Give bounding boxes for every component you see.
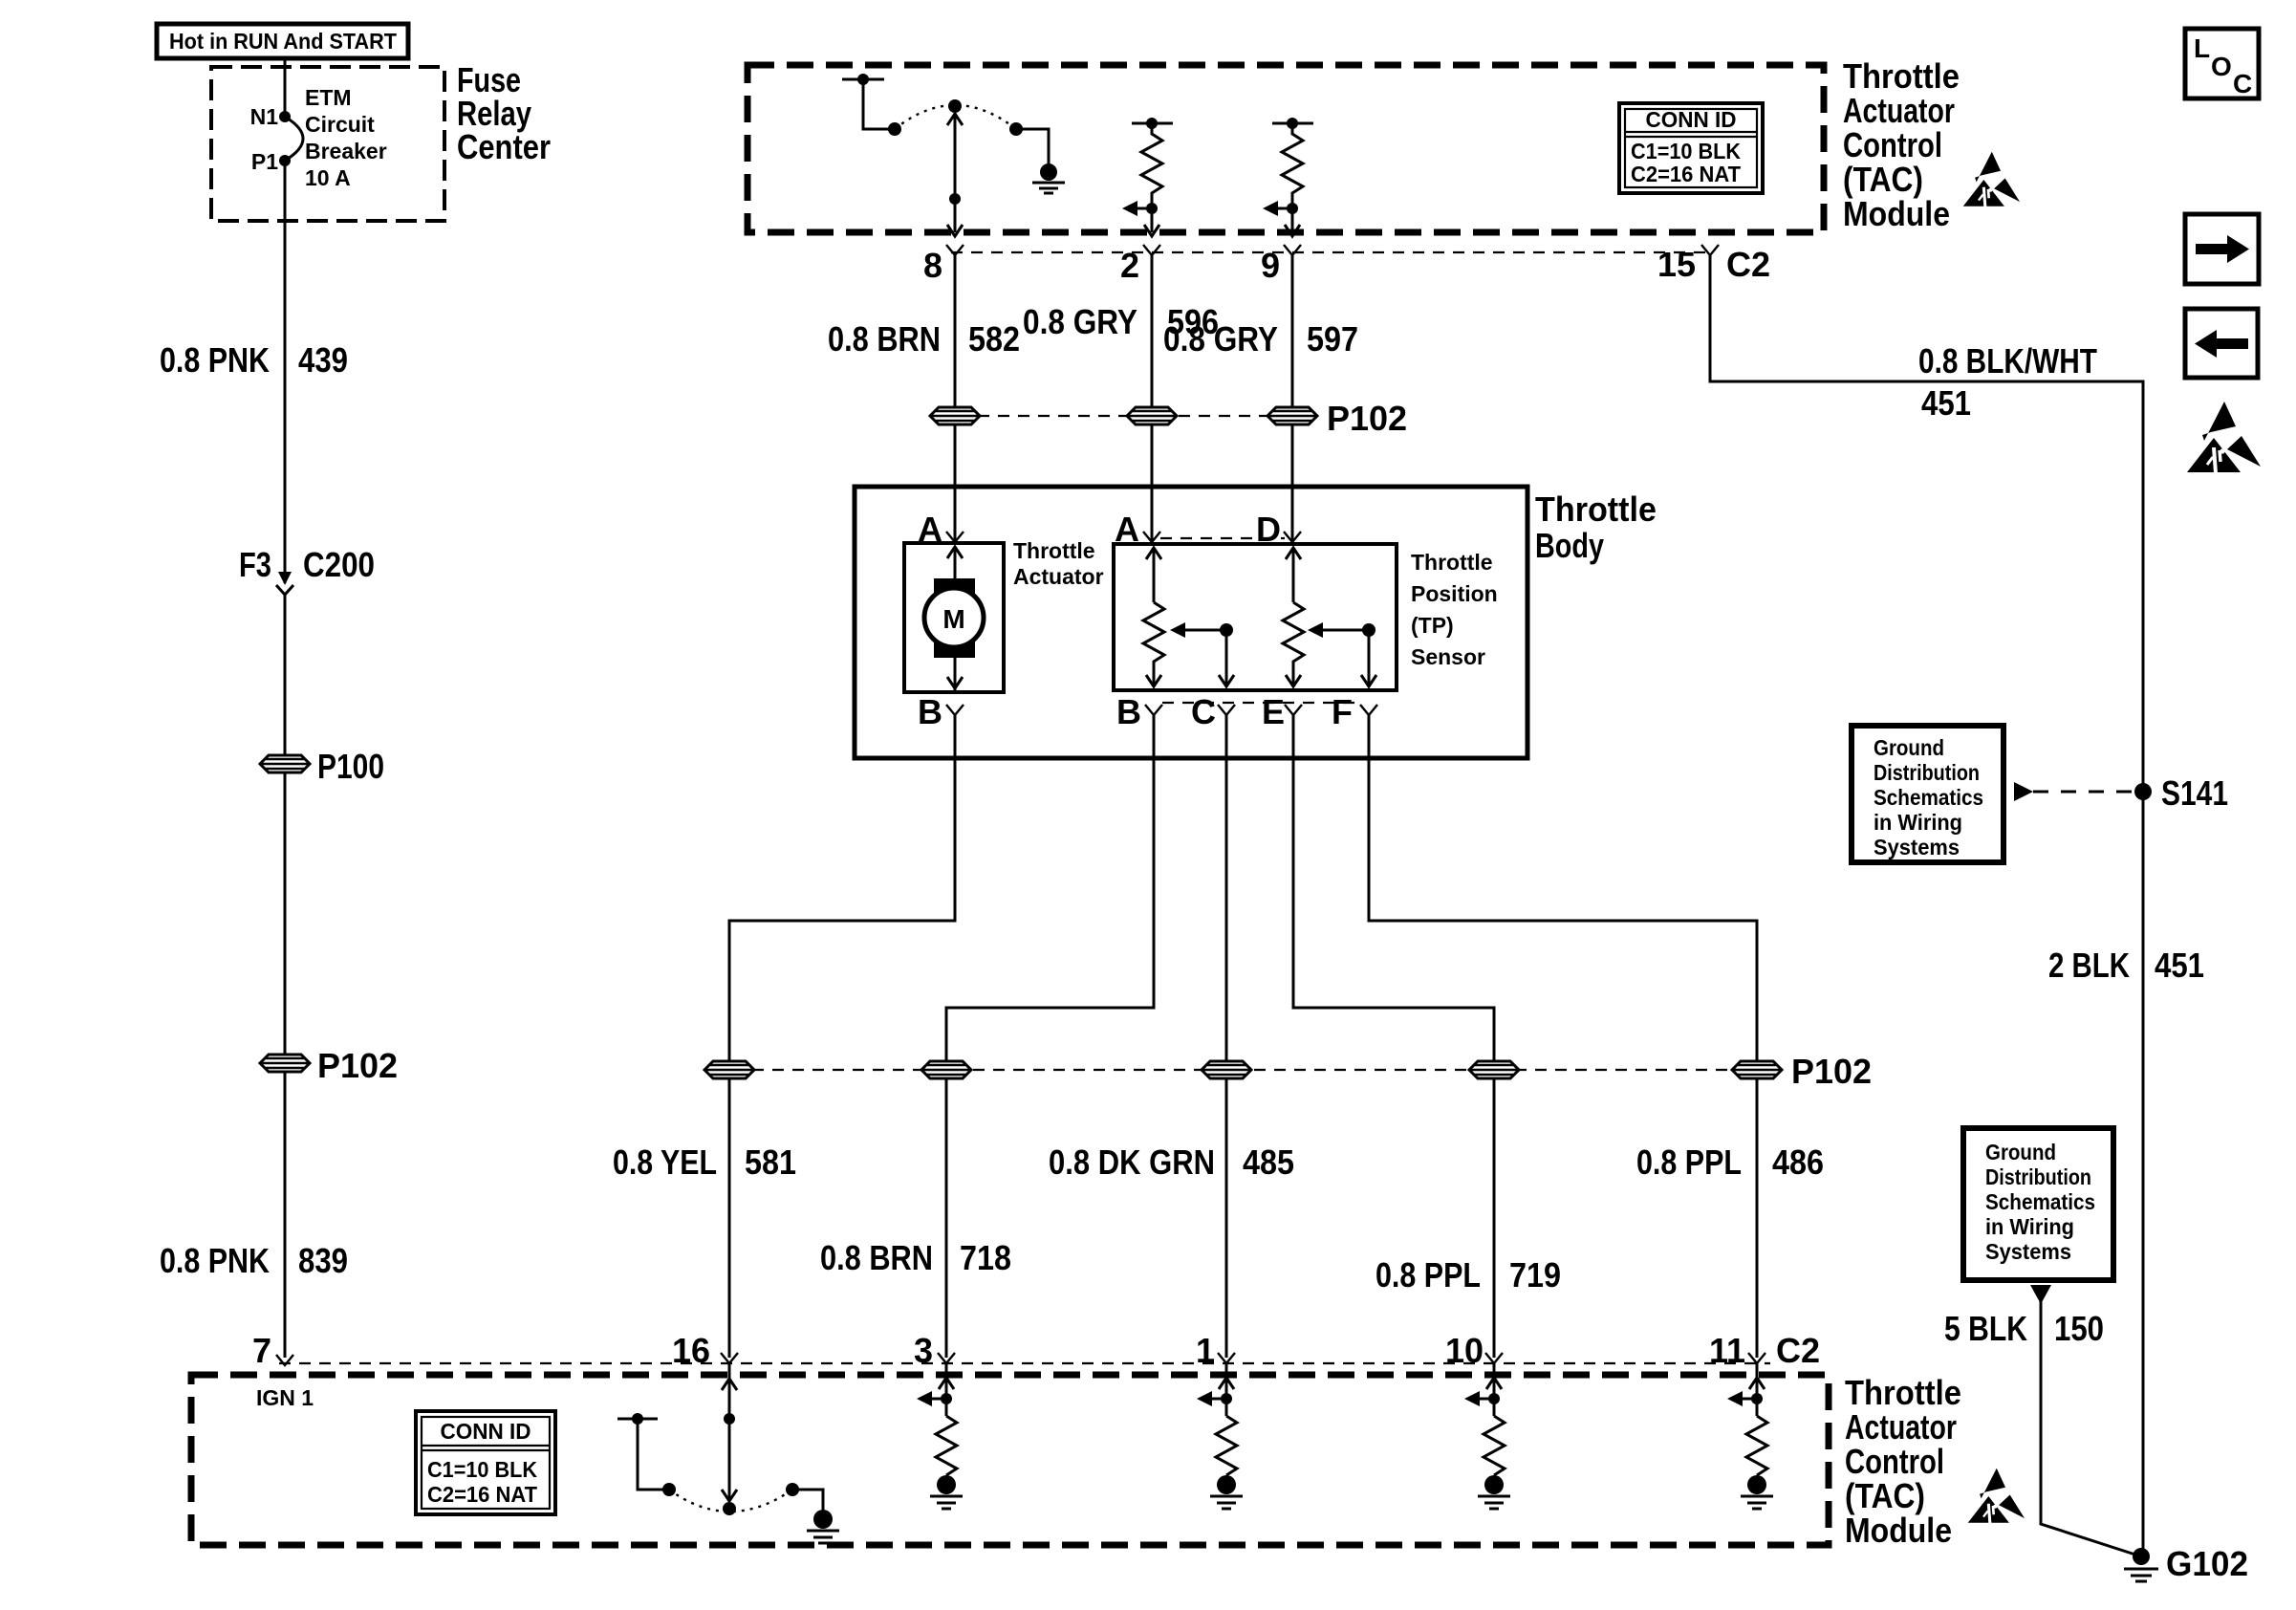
pin A chevron (TP) [1115, 510, 1160, 549]
wire 581 (motor B to pin 16, jog) [729, 715, 955, 1358]
grommet P102 a [930, 407, 980, 424]
wire 718 (TP B to pin 3, jog) [946, 715, 1154, 1358]
wire 451 (pin 15 C2 to G102) [1710, 255, 2143, 1556]
wire 597 (pin 9 to TP D) [1291, 255, 1294, 543]
relay switch in top TAC module [842, 74, 1049, 164]
svg-text:150: 150 [2054, 1309, 2104, 1348]
dashed link A to D [1160, 537, 1285, 539]
svg-text:F3: F3 [239, 545, 271, 584]
svg-text:C1=10 BLK: C1=10 BLK [427, 1457, 537, 1482]
label 0.8 BRN 582 [828, 319, 1020, 359]
svg-text:Throttle: Throttle [1845, 1373, 1961, 1412]
svg-text:IGN 1: IGN 1 [256, 1385, 314, 1410]
circuit breaker ETM 10A [250, 85, 387, 190]
svg-text:(TAC): (TAC) [1845, 1476, 1925, 1515]
pin F chevron [1332, 692, 1377, 731]
wire pin 16 (relay common, double arrow) [722, 1363, 737, 1501]
svg-text:Throttle: Throttle [1843, 56, 1960, 96]
svg-text:Actuator: Actuator [1845, 1407, 1957, 1447]
pin 9 chevron and label [1261, 245, 1301, 285]
wire from header into fuse box [284, 57, 287, 117]
svg-text:in Wiring: in Wiring [1985, 1214, 2074, 1239]
connector C200 (F3) [239, 545, 375, 595]
svg-text:E: E [1262, 692, 1285, 731]
svg-text:1: 1 [1196, 1331, 1215, 1370]
pin 15 chevron and labels 15 / C2 [1657, 245, 1770, 284]
TP wiper 1 (pin C) [1170, 622, 1234, 686]
svg-text:C2: C2 [1726, 245, 1770, 284]
pin 8 chevron and label [923, 245, 964, 285]
svg-text:0.8 YEL: 0.8 YEL [613, 1142, 717, 1182]
wire 582 (pin 8 to motor A) [954, 255, 957, 543]
svg-text:0.8 BRN: 0.8 BRN [820, 1238, 933, 1277]
svg-text:0.8 PPL: 0.8 PPL [1636, 1142, 1742, 1182]
svg-text:C2: C2 [1776, 1331, 1820, 1370]
svg-text:0.8 PNK: 0.8 PNK [160, 340, 270, 380]
svg-text:451: 451 [2155, 946, 2204, 985]
svg-text:Circuit: Circuit [305, 112, 375, 137]
svg-text:7: 7 [252, 1331, 271, 1370]
pin 16 chevron and label [672, 1331, 738, 1370]
right arrow box icon [2185, 214, 2259, 284]
ESD symbol (bottom TAC) [1968, 1469, 2025, 1524]
svg-text:Breaker: Breaker [305, 139, 387, 163]
svg-text:Sensor: Sensor [1411, 644, 1485, 669]
label Throttle Actuator Control (TAC) Module (bottom right) [1845, 1373, 1961, 1550]
svg-text:M: M [942, 604, 964, 634]
svg-text:0.8 GRY: 0.8 GRY [1163, 319, 1278, 359]
grommet P102 1 [704, 1061, 754, 1078]
pin A chevron (motor) [918, 510, 964, 549]
svg-text:Body: Body [1535, 526, 1604, 565]
svg-text:S141: S141 [2161, 773, 2228, 813]
label Throttle Actuator [1013, 538, 1104, 589]
grommet P102 2 [921, 1061, 971, 1078]
svg-text:C1=10 BLK: C1=10 BLK [1631, 139, 1741, 163]
svg-text:in Wiring: in Wiring [1874, 810, 1962, 835]
label Throttle Body [1535, 490, 1657, 565]
svg-text:ETM: ETM [305, 85, 352, 110]
svg-text:439: 439 [298, 340, 348, 380]
connector row under top TAC (thin dashed) [951, 251, 1714, 253]
svg-text:C: C [1191, 692, 1216, 731]
resistor to ground (pin 10) [1464, 1363, 1510, 1509]
pin C chevron [1191, 692, 1235, 731]
label 0.8 PNK 839 [160, 1241, 348, 1280]
grommet P102 b [1127, 407, 1177, 424]
TAC module box bottom (dashed) [191, 1375, 1829, 1545]
svg-text:11: 11 [1709, 1331, 1745, 1370]
label Fuse Relay Center [457, 60, 551, 166]
ground G102 [2124, 1544, 2248, 1583]
svg-text:10: 10 [1445, 1331, 1484, 1370]
svg-text:582: 582 [968, 319, 1020, 359]
wire segment C200 to P100 [284, 595, 287, 1358]
label 0.8 BRN 718 [820, 1238, 1011, 1277]
svg-text:L: L [2194, 33, 2210, 63]
label 0.8 DK GRN 485 [1049, 1142, 1294, 1182]
svg-text:P102: P102 [317, 1046, 398, 1085]
TP wiper 2 (pin F) [1308, 622, 1376, 686]
svg-text:Throttle: Throttle [1013, 538, 1095, 563]
throttle body box [855, 487, 1527, 758]
label 0.8 PNK 439 [160, 340, 348, 380]
ground symbol (bottom relay) [807, 1510, 839, 1543]
svg-text:0.8 PPL: 0.8 PPL [1375, 1255, 1481, 1295]
svg-text:719: 719 [1509, 1255, 1561, 1295]
svg-text:F: F [1332, 692, 1353, 731]
label 0.8 PPL 719 [1375, 1255, 1561, 1295]
svg-text:P102: P102 [1791, 1052, 1872, 1091]
svg-text:Actuator: Actuator [1013, 564, 1104, 589]
svg-text:581: 581 [745, 1142, 796, 1182]
svg-text:Schematics: Schematics [1874, 785, 1983, 810]
pin B chevron (TP) [1116, 692, 1162, 731]
arrow from box 1 to S141 (dashed) [2014, 782, 2137, 801]
CONN ID box (bottom) [416, 1411, 555, 1514]
svg-text:Systems: Systems [1874, 835, 1960, 859]
label 5 BLK 150 [1944, 1309, 2104, 1348]
svg-text:Distribution: Distribution [1985, 1164, 2091, 1189]
ESD symbol (right column) [2187, 402, 2261, 473]
pin B chevron (motor) [918, 692, 964, 731]
svg-text:(TP): (TP) [1411, 613, 1454, 638]
svg-text:597: 597 [1307, 319, 1358, 359]
resistor in TAC module (pin 9) [1263, 118, 1313, 236]
svg-text:P1: P1 [251, 149, 278, 174]
label 0.8 GRY 596 [1023, 302, 1219, 341]
svg-text:3: 3 [914, 1331, 933, 1370]
resistor to ground (pin 3) [917, 1363, 963, 1509]
svg-text:2 BLK: 2 BLK [2048, 946, 2130, 985]
ground distribution box 1 [1852, 726, 2004, 862]
fuse relay center box (dashed) [211, 67, 444, 221]
svg-text:Actuator: Actuator [1843, 91, 1955, 130]
left arrow box icon [2185, 309, 2258, 378]
resistor to ground (pin 1) [1197, 1363, 1243, 1509]
svg-text:Systems: Systems [1985, 1239, 2071, 1264]
TAC module box top (dashed) [747, 65, 1824, 232]
label 0.8 BLK/WHT 451 [1918, 341, 2097, 423]
resistor to ground (pin 11) [1727, 1363, 1773, 1509]
svg-text:P100: P100 [317, 747, 384, 786]
svg-text:Control: Control [1845, 1442, 1944, 1481]
connector P102 (left) [260, 1046, 398, 1085]
connector P102 row (top, 3 grommets) [978, 415, 1269, 417]
svg-text:C: C [2233, 69, 2252, 98]
svg-text:B: B [918, 692, 942, 731]
wire 596 (pin 2 to TP A) [1151, 255, 1154, 543]
throttle actuator inner box [904, 543, 1004, 692]
svg-text:2: 2 [1120, 246, 1139, 285]
connector P100 [260, 747, 384, 786]
svg-text:C200: C200 [303, 545, 375, 584]
wire 439 (0.8 PNK) [284, 161, 287, 583]
label 2 BLK 451 [2048, 946, 2204, 985]
grommet P102 4 [1469, 1061, 1519, 1078]
relay switch in bottom TAC module [617, 1413, 823, 1515]
resistor in TAC module (pin 2) [1122, 118, 1173, 236]
svg-text:0.8 BLK/WHT: 0.8 BLK/WHT [1918, 341, 2097, 381]
node S141 [2134, 773, 2228, 813]
svg-text:718: 718 [960, 1238, 1011, 1277]
svg-text:15: 15 [1657, 245, 1696, 284]
svg-text:485: 485 [1243, 1142, 1294, 1182]
grommet P102 5 and label [1732, 1052, 1872, 1091]
svg-text:CONN ID: CONN ID [1646, 107, 1737, 132]
header box "Hot in RUN And START" [157, 24, 408, 58]
ground distribution box 2 [1963, 1128, 2113, 1280]
wire 485 (TP C to pin 1) [1225, 715, 1228, 1358]
LOC box icon [2185, 29, 2259, 98]
wire pin 8 (relay common, double arrow) [947, 113, 963, 236]
svg-text:0.8 PNK: 0.8 PNK [160, 1241, 270, 1280]
svg-text:Module: Module [1845, 1511, 1952, 1550]
svg-text:Module: Module [1843, 194, 1950, 233]
pin 7 chevron [252, 1331, 293, 1370]
pin 10 chevron and label [1445, 1331, 1503, 1370]
wire 486 (TP F to pin 11, jog) [1369, 715, 1757, 1358]
pin D chevron (TP) [1256, 510, 1301, 549]
svg-text:10 A: 10 A [305, 165, 351, 190]
svg-text:B: B [1116, 692, 1141, 731]
motor M symbol [924, 547, 984, 692]
CONN ID box (top) [1619, 103, 1763, 193]
TP potentiometer 2 (right) [1283, 548, 1304, 686]
svg-text:Throttle: Throttle [1535, 490, 1657, 529]
svg-text:N1: N1 [250, 104, 279, 129]
svg-text:451: 451 [1921, 383, 1971, 423]
svg-text:5 BLK: 5 BLK [1944, 1309, 2027, 1348]
svg-text:Control: Control [1843, 125, 1942, 164]
svg-text:P102: P102 [1327, 399, 1407, 438]
svg-text:CONN ID: CONN ID [441, 1419, 531, 1444]
svg-text:839: 839 [298, 1241, 348, 1280]
svg-text:8: 8 [923, 246, 942, 285]
grommet P102 3 [1202, 1061, 1251, 1078]
svg-text:9: 9 [1261, 246, 1280, 285]
label 0.8 YEL 581 [613, 1142, 796, 1182]
svg-text:Throttle: Throttle [1411, 550, 1493, 575]
label Throttle Actuator Control (TAC) Module (top right) [1843, 56, 1960, 233]
svg-text:C2=16 NAT: C2=16 NAT [1631, 162, 1741, 186]
svg-text:Hot in RUN And START: Hot in RUN And START [169, 29, 397, 54]
TP sensor inner box [1114, 544, 1397, 690]
ground symbol (top TAC relay) [1032, 163, 1065, 193]
svg-text:Schematics: Schematics [1985, 1189, 2095, 1214]
svg-text:Ground: Ground [1985, 1140, 2056, 1164]
label 0.8 PPL 486 [1636, 1142, 1824, 1182]
svg-text:O: O [2211, 52, 2232, 81]
dashed link B to F [1162, 702, 1361, 704]
TP potentiometer 1 (left) [1143, 548, 1164, 686]
pin 1 chevron and label [1196, 1331, 1235, 1370]
label Throttle Position (TP) Sensor [1411, 550, 1498, 669]
connector P102 row (bottom, 5 grommets) [752, 1069, 1734, 1071]
pin 3 chevron and label [914, 1331, 955, 1370]
svg-text:Distribution: Distribution [1874, 760, 1980, 785]
svg-text:486: 486 [1772, 1142, 1824, 1182]
svg-text:(TAC): (TAC) [1843, 160, 1923, 199]
label 0.8 GRY 597 [1163, 319, 1358, 359]
svg-text:Center: Center [457, 127, 551, 166]
svg-text:C2=16 NAT: C2=16 NAT [427, 1482, 537, 1507]
ESD symbol (top TAC) [1963, 152, 2020, 207]
svg-text:Position: Position [1411, 581, 1498, 606]
svg-text:0.8 BRN: 0.8 BRN [828, 319, 941, 359]
connector row above bottom TAC (thin dashed) [279, 1362, 1770, 1364]
svg-text:Ground: Ground [1874, 735, 1944, 760]
svg-text:0.8 GRY: 0.8 GRY [1023, 302, 1137, 341]
pin 2 chevron and label [1120, 245, 1160, 285]
pin 11 chevron and labels 11 / C2 [1709, 1331, 1820, 1370]
svg-text:0.8 DK GRN: 0.8 DK GRN [1049, 1142, 1215, 1182]
wire 719 (TP E to pin 10, jog) [1293, 715, 1494, 1358]
grommet P102 c and label [1267, 399, 1407, 438]
wire 150 (5 BLK) from box 2 to G102 [2030, 1285, 2141, 1556]
svg-text:G102: G102 [2166, 1544, 2248, 1583]
pin E chevron [1262, 692, 1302, 731]
svg-text:16: 16 [672, 1331, 710, 1370]
